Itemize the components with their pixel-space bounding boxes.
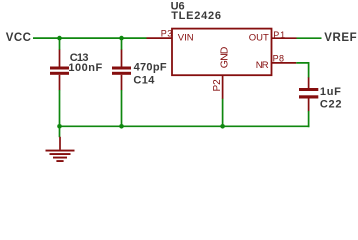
wire OUT to VREF (297, 37, 322, 39)
svg-text:NR: NR (256, 60, 269, 71)
svg-text:VIN: VIN (178, 32, 194, 43)
wire pin P1 stub (272, 37, 297, 39)
svg-text:C14: C14 (133, 74, 155, 86)
IC U6 TLE2426 (161, 1, 286, 92)
wire bottom lead (121, 75, 123, 91)
wire pin P8 stub (272, 62, 297, 64)
IC body outline (172, 29, 272, 76)
wire top lead (59, 38, 61, 50)
svg-text:GND: GND (219, 46, 231, 68)
junction GND pin/ground rail (220, 124, 225, 129)
svg-text:TLE2426: TLE2426 (171, 10, 222, 22)
wire top lead (308, 77, 310, 88)
svg-text:P8: P8 (273, 53, 285, 63)
wire bottom lead (308, 99, 310, 112)
svg-text:1uF: 1uF (320, 86, 342, 98)
wire GND pin to rail (222, 99, 224, 127)
capacitor C22 plates (299, 88, 318, 91)
wire NR to C22 (296, 63, 308, 78)
capacitor C13 (50, 38, 103, 126)
wire bottom lead (59, 75, 61, 91)
svg-text:VCC: VCC (6, 32, 32, 44)
svg-text:100nF: 100nF (68, 62, 102, 74)
svg-text:P3: P3 (161, 28, 173, 38)
wire pin P3 stub (147, 37, 172, 39)
capacitor C13 plates (50, 67, 69, 70)
ground bars (46, 150, 75, 152)
junction C14/ground rail (119, 124, 124, 129)
junction C13/ground rail (57, 124, 62, 129)
svg-text:470pF: 470pF (134, 61, 167, 73)
junction C13/VCC rail (57, 36, 62, 41)
capacitor C14 (112, 38, 167, 126)
wire VCC rail (33, 37, 147, 39)
ground (46, 126, 75, 162)
svg-text:VREF: VREF (324, 32, 357, 44)
svg-text:P2: P2 (212, 79, 223, 92)
wire ground lead (59, 126, 61, 137)
capacitor C14 plates (112, 67, 131, 70)
svg-text:C22: C22 (320, 99, 342, 111)
wire ground rail (60, 125, 310, 127)
svg-text:OUT: OUT (249, 32, 269, 43)
capacitor C22 (299, 77, 342, 127)
junction C14/VCC rail (119, 36, 124, 41)
wire top lead (121, 38, 123, 50)
wire pin P2 stub (222, 75, 224, 99)
